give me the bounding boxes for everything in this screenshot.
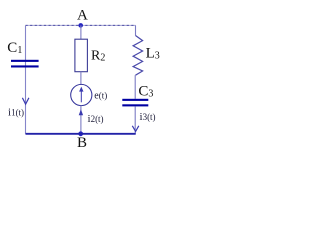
svg-text:e(t): e(t) [94, 91, 107, 102]
source e(t) circle [71, 84, 92, 105]
arrowhead current i3 (down) [132, 126, 139, 132]
svg-text:i1(t): i1(t) [8, 106, 24, 118]
wire middle branch (R2 to source) [80, 72, 82, 85]
capacitor C3 [122, 99, 148, 107]
wire middle branch lower (source to B) [80, 106, 82, 134]
capacitor C1 [11, 60, 39, 68]
arrowhead current i2 (up) [79, 109, 83, 115]
svg-text:C3: C3 [138, 84, 153, 100]
wire left branch vertical [25, 25, 27, 133]
svg-text:i3(t): i3(t) [140, 111, 156, 123]
svg-text:L3: L3 [146, 46, 160, 62]
svg-text:B: B [77, 135, 87, 151]
svg-text:i2(t): i2(t) [88, 113, 104, 125]
inductor L3 zigzag [133, 36, 143, 76]
wire right branch lower (C3 to bottom rail) [134, 106, 136, 133]
node A junction dot [78, 23, 83, 28]
wire right branch upper (top rail to L3) [135, 25, 137, 35]
wire right branch middle (L3 to C3) [134, 75, 136, 99]
wire top horizontal (node A rail) [26, 24, 136, 26]
arrowhead current i1 (down) [22, 98, 29, 104]
arrow inside source (up) [79, 87, 83, 103]
svg-text:A: A [77, 8, 88, 24]
svg-text:C1: C1 [7, 40, 22, 56]
resistor R2 body [75, 39, 88, 71]
wire bottom horizontal (node B rail) [26, 133, 136, 135]
svg-text:R2: R2 [91, 48, 105, 63]
wire middle branch upper (A to R2) [80, 25, 82, 39]
node B junction dot [78, 131, 83, 136]
